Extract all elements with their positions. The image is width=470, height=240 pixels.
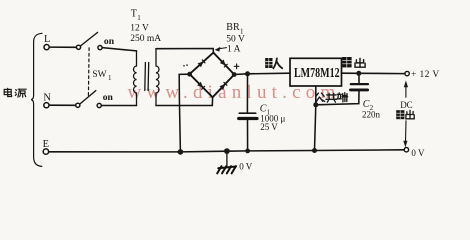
DC arrow up [404, 80, 408, 87]
node input rail / C1 [245, 71, 250, 76]
bridge rectifier BR1 diamond [190, 53, 235, 98]
capacitor C2 bottom lead [316, 91, 359, 104]
plus sign at bridge output [234, 64, 239, 69]
svg-text:12 V: 12 V [130, 24, 149, 34]
wire N to switch pivot [49, 104, 76, 106]
switch SW1a fixed contact [98, 46, 102, 50]
svg-text:220n: 220n [362, 110, 381, 120]
svg-text:DC: DC [400, 100, 413, 110]
node rail / ground [224, 148, 230, 154]
label shuchu (output) at regulator [342, 57, 365, 67]
capacitor C1 plates [239, 112, 255, 114]
DC output dimension line upper [405, 87, 407, 98]
svg-text:+ 12 V: + 12 V [411, 70, 440, 80]
0V rail [49, 150, 404, 152]
terminal E [43, 149, 48, 154]
node rail / common [312, 148, 317, 153]
wire secondary bottom to bridge bottom corner [156, 98, 213, 106]
terminal N [44, 103, 49, 108]
regulator common pin wire [315, 86, 316, 151]
wire regulator output to +12V terminal [342, 72, 405, 74]
diode D3 lower-left [197, 82, 205, 90]
transformer T1 core [144, 63, 147, 91]
chinese glyphs drawn as strokes [4, 57, 414, 119]
transformer T1 secondary winding [156, 49, 159, 106]
svg-text:50 V: 50 V [226, 35, 245, 45]
node bridge left corner [187, 72, 192, 77]
switch SW1b lever [80, 91, 96, 105]
transformer T1 primary winding [134, 51, 137, 106]
svg-text:0 V: 0 V [239, 162, 253, 172]
DC output dimension line lower [405, 121, 408, 142]
label gonggongduan (common) [316, 93, 348, 103]
brace (power source bracket) [31, 33, 42, 166]
svg-text:1: 1 [108, 74, 112, 82]
paper background [0, 0, 470, 181]
svg-text:SW: SW [92, 70, 106, 80]
regulator U1 box [290, 58, 342, 86]
node bridge right corner [232, 72, 237, 77]
svg-text:LM78M12: LM78M12 [294, 65, 340, 80]
capacitor C1 top lead [246, 74, 248, 113]
node rail / bridge minus [178, 149, 184, 155]
switch SW1b pivot contact [76, 103, 80, 107]
ac tilde dots at bridge left corner [183, 65, 185, 67]
ground symbol [217, 166, 236, 173]
capacitor C1 bottom lead [247, 120, 249, 151]
svg-text:1: 1 [137, 14, 141, 22]
wire secondary top to bridge top corner [156, 49, 213, 53]
wire switch to transformer primary top [102, 48, 136, 51]
svg-text:0 V: 0 V [411, 148, 425, 158]
switch SW1b fixed contact [97, 103, 101, 107]
svg-text:on: on [103, 92, 114, 103]
svg-text:BR: BR [226, 22, 240, 33]
node common / C2 [313, 102, 318, 107]
ground stub [226, 151, 228, 166]
capacitor C2 top lead [358, 73, 360, 83]
arrowhead of 1A leader [215, 47, 221, 52]
svg-text:N: N [43, 93, 51, 104]
switch SW1a lever [80, 32, 97, 46]
svg-text:1 A: 1 A [227, 45, 241, 55]
junction dots [178, 47, 408, 155]
labels (latin) [43, 9, 440, 172]
svg-text:www.dianlut.com: www.dianlut.com [128, 82, 341, 103]
label dianyuan (power) [4, 88, 26, 97]
svg-text:25 V: 25 V [260, 122, 278, 132]
node rail / C1 bottom [245, 149, 250, 154]
label DC shuchu (DC output) [396, 110, 414, 119]
leader line from 1A label to bridge [219, 48, 227, 49]
wire bridge left corner to 0V rail [179, 74, 189, 152]
svg-text:250 mA: 250 mA [130, 34, 161, 44]
output terminal 0V [404, 148, 408, 152]
capacitor C2 plates [351, 83, 368, 85]
terminal L [44, 45, 49, 50]
label shuru (input) [265, 58, 282, 68]
svg-text:E: E [43, 139, 49, 150]
wire L to switch pivot [49, 46, 76, 48]
svg-text:L: L [44, 34, 50, 45]
svg-text:T: T [131, 9, 137, 20]
wire switch to transformer primary bottom [101, 105, 136, 107]
node output rail / C2 [356, 71, 361, 76]
svg-text:on: on [104, 36, 115, 47]
SW1 mechanical link dashed [87, 48, 90, 98]
DC arrow down [403, 141, 407, 148]
wire bridge right corner to regulator input [234, 73, 290, 74]
diode D4 lower-right [219, 82, 227, 90]
diode D2 upper-right [220, 60, 228, 68]
output terminal +12V [405, 71, 409, 75]
diode D1 upper-left [198, 59, 206, 67]
switch SW1a pivot contact [76, 45, 80, 49]
